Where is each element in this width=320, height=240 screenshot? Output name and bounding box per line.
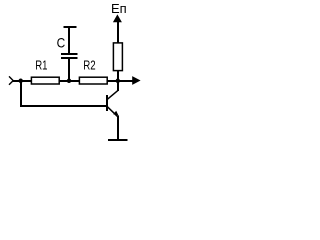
node C junction dot	[116, 79, 121, 84]
svg-text:R1: R1	[35, 57, 47, 72]
wire node C down to collector	[117, 81, 119, 91]
node A junction dot	[18, 79, 23, 84]
wire emitter down to ground	[117, 116, 119, 141]
svg-text:R2: R2	[83, 57, 95, 72]
input terminal arrow	[9, 76, 13, 84]
svg-text:Еп: Еп	[111, 1, 127, 16]
svg-text:C: C	[57, 35, 66, 51]
wire supply arrow to R3	[117, 22, 119, 44]
wire R3 to node C	[117, 71, 119, 81]
supply arrow	[113, 14, 122, 22]
transistor Q1 emitter lead with arrow	[107, 107, 118, 117]
open terminal T-bar	[64, 26, 77, 28]
wire node A down (feedback)	[20, 81, 22, 106]
transistor Q1 collector lead	[107, 91, 118, 100]
wire feedback to base	[20, 105, 106, 107]
ground bar	[108, 139, 128, 141]
transistor Q1 base bar	[106, 95, 108, 111]
wire node B up to capacitor	[68, 58, 70, 81]
wire input to node A	[13, 80, 32, 82]
output arrow	[132, 76, 140, 85]
node B junction dot	[67, 79, 72, 84]
resistor R3 (collector)	[113, 43, 122, 71]
wire R2 to node C	[108, 80, 133, 82]
wire capacitor to open terminal	[68, 27, 70, 54]
capacitor C1	[61, 54, 77, 58]
wire R1 to node B	[60, 80, 80, 82]
resistor R2	[79, 77, 107, 84]
resistor R1	[31, 77, 59, 84]
